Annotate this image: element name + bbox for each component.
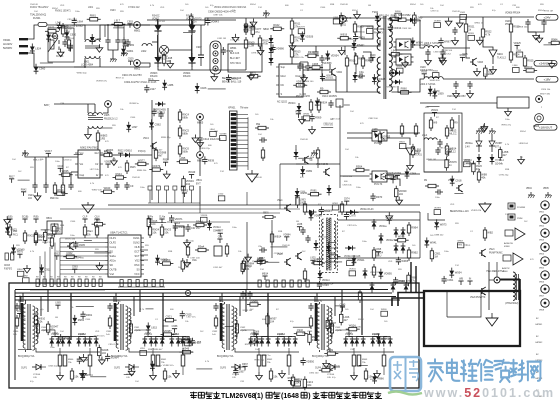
svg-text:LCL-140B4: LCL-140B4 [81,64,94,67]
stub CLB [217,236,222,244]
watermark text [428,359,541,382]
svg-text:C943: C943 [335,327,341,329]
svg-text:R9B: R9B [278,231,283,233]
svg-text:10k: 10k [87,235,92,237]
svg-text:C942: C942 [240,327,246,329]
svg-text:L915: L915 [151,325,157,329]
svg-text:104: 104 [258,134,262,136]
svg-text:CATIN2: CATIN2 [535,341,543,344]
svg-text:+18VOUT: +18VOUT [539,126,553,130]
svg-text:4k7: 4k7 [158,154,163,158]
svg-text:VB05: VB05 [539,268,545,270]
svg-text:L993: L993 [333,17,339,19]
wire to right section [247,17,292,19]
transformer T804 primary bar [315,303,318,341]
choke L901 [80,25,100,67]
svg-text:R943: R943 [433,70,439,72]
svg-text:R9G4: R9G4 [196,219,203,223]
svg-text:W977: W977 [138,158,145,162]
svg-text:10k: 10k [307,383,312,387]
svg-text:C987 10k: C987 10k [213,14,223,16]
svg-text:R9: R9 [424,180,428,182]
svg-text:R942: R942 [399,279,406,283]
ground blk a [150,372,157,380]
svg-text:100n: 100n [116,301,122,303]
svg-text:B7: B7 [436,117,439,119]
svg-text:R9B: R9B [330,4,335,6]
svg-text:R959 47u: R959 47u [294,57,304,59]
extra parts low-right [347,258,354,265]
junction dots [107,24,109,26]
bus line 1 [15,289,388,291]
diode pair D831c [76,332,87,347]
svg-text:XS901: XS901 [3,39,11,42]
svg-text:V9u8 PUMP7K: V9u8 PUMP7K [470,297,486,299]
svg-text:VD988 330: VD988 330 [386,87,398,89]
cap C946 [525,19,530,27]
wire v200b [199,186,201,204]
svg-text:VD988: VD988 [220,133,227,135]
cap C823b [235,320,238,337]
svg-text:R9G4: R9G4 [358,319,364,321]
svg-text:UBA TL4C7C1: UBA TL4C7C1 [110,231,128,235]
wire bridge top [141,24,205,26]
svg-text:L927: L927 [150,87,156,91]
parts mid [259,247,267,252]
svg-text:C9u: C9u [359,70,364,74]
transformer T801 [18,302,35,358]
cap C912b [357,70,365,79]
mosfet V904 [150,142,157,150]
svg-text:1k5: 1k5 [210,124,214,126]
cap CQ2 [305,235,310,243]
ground pfc top [82,202,94,213]
box out4 [424,115,459,172]
svg-text:Y4: Y4 [300,10,303,12]
bottom row parts [36,279,39,287]
svg-text:470: 470 [214,163,218,165]
svg-text:R981: R981 [311,189,318,193]
svg-text:VD940: VD940 [17,248,25,252]
svg-text:R9: R9 [43,277,46,279]
svg-text:104: 104 [12,159,16,161]
svg-text:4.7k: 4.7k [140,309,145,311]
svg-text:100n: 100n [356,187,362,189]
cap C824 [308,303,313,311]
svg-text:R9B: R9B [60,225,65,227]
svg-text:10k: 10k [38,320,43,324]
svg-text:PJ4: PJ4 [260,269,265,271]
resistor R850c [269,368,278,382]
chassis zb [489,128,496,134]
svg-text:R(B): R(B) [34,216,39,219]
chassis mid [311,150,318,156]
svg-text:49/68: 49/68 [504,246,510,248]
svg-text:VD977: VD977 [298,27,305,29]
svg-text:104: 104 [440,5,444,7]
svg-text:W999 330: W999 330 [430,80,441,82]
svg-text:L972 10k: L972 10k [90,169,100,171]
svg-text:BAT(: BAT( [44,104,50,107]
svg-text:VD984: VD984 [394,172,402,175]
box WB02 [361,26,386,39]
svg-text:470: 470 [300,177,304,179]
wire N902 [409,155,411,162]
svg-text:CLP: CLP [83,216,88,219]
svg-text:3(24)4b: 3(24)4b [495,163,504,165]
svg-text:47p: 47p [40,309,44,311]
svg-text:C943 1n: C943 1n [64,160,73,162]
svg-text:VD917: VD917 [45,150,53,153]
svg-text:VD921: VD921 [326,75,334,79]
svg-text:R994 22p: R994 22p [355,31,365,33]
svg-text:PJ4: PJ4 [455,265,460,267]
parts under V906 [425,184,439,187]
resistor R851c [364,368,373,382]
test point MB01 [134,22,141,33]
extra parts low-left [17,251,24,258]
svg-text:BLU: BLU [376,254,381,258]
svg-text:OLP2: OLP2 [114,368,121,370]
svg-text:C931: C931 [106,331,112,333]
svg-text:VD968 1n: VD968 1n [129,103,140,105]
svg-text:50/60Hz: 50/60Hz [3,47,13,50]
svg-text:VD943: VD943 [445,149,453,152]
test point MB05 [197,114,204,125]
svg-text:75k: 75k [161,362,165,364]
svg-text:C946: C946 [320,7,326,9]
svg-text:1k5: 1k5 [412,245,416,247]
wire rail mid [104,25,106,37]
svg-text:2k2: 2k2 [302,251,306,253]
diode DQ1 [306,210,317,215]
svg-text:27k: 27k [294,39,299,43]
svg-text:4k7: 4k7 [382,137,387,141]
svg-text:C970 22p: C970 22p [499,175,509,177]
svg-text:MLCC: MLCC [449,132,456,136]
junction bead [494,277,500,283]
svg-text:WB: WB [120,11,124,13]
svg-text:15k: 15k [273,375,278,379]
svg-text:100n: 100n [55,161,61,163]
svg-text:W996 4k7: W996 4k7 [153,349,164,351]
svg-text:10k: 10k [238,251,242,253]
svg-text:1k5: 1k5 [345,309,349,311]
box XB01 [46,217,62,234]
svg-text:L968 104: L968 104 [65,38,75,40]
svg-text:2k2: 2k2 [200,331,204,333]
svg-text:C920 10k: C920 10k [541,89,551,91]
small boxes row [148,186,152,190]
wire bridge vert [157,20,159,25]
svg-text:NTC 5D-9: NTC 5D-9 [230,62,241,65]
svg-text:P(C): P(C) [13,234,18,236]
resistor R848b [382,355,386,366]
svg-text:C950: C950 [258,340,265,344]
wire T901 [94,104,96,113]
resistor RS4 [407,222,418,236]
resistor R845b [88,355,92,366]
diode pair D832b [153,336,164,347]
resistor R863L [214,315,217,329]
svg-text:NC: NC [281,84,285,87]
svg-text:): ) [308,393,310,400]
svg-text:V902: V902 [336,71,342,74]
svg-text:1k5: 1k5 [255,114,259,116]
svg-text:W935: W935 [62,169,69,173]
svg-text:R9G4: R9G4 [520,131,526,133]
resistor RS1 [270,231,282,245]
transformer T901 [88,113,118,129]
svg-text:L989: L989 [95,37,101,41]
svg-text:WB: WB [30,167,34,169]
svg-text:1N4148: 1N4148 [340,4,348,6]
svg-text:W970 330: W970 330 [65,239,76,241]
svg-text:R913: R913 [526,65,533,69]
extra parts bottom1 [76,305,94,307]
svg-text:W935: W935 [232,76,239,80]
ground CY [110,50,117,62]
diode pair D834a [343,332,354,347]
diode VD903 [154,53,161,67]
svg-text:R961: R961 [161,359,167,361]
ground z [299,116,306,124]
svg-text:C911: C911 [45,267,52,271]
svg-text:OUTB: OUTB [110,269,117,272]
svg-text:SB03 D5B2: SB03 D5B2 [398,14,411,17]
caption title [190,392,382,401]
svg-text:WB14: WB14 [274,235,282,239]
svg-text:W960 22p: W960 22p [77,73,88,75]
optocoupler PC903 [370,130,390,145]
svg-text:SB: SB [55,317,58,319]
extra parts bottom3 [293,326,311,328]
wire route e [279,164,281,209]
svg-text:OLB: OLB [134,246,139,249]
svg-text:C932: C932 [297,328,304,332]
svg-text:C978 2k2: C978 2k2 [274,253,284,255]
svg-text:C970: C970 [433,89,440,93]
svg-text:1N4148: 1N4148 [300,139,308,141]
svg-text:VD957 1n: VD957 1n [261,355,272,357]
transformer T803 [217,302,234,358]
svg-text:104: 104 [370,309,374,311]
varistor RV901 box [48,28,74,62]
svg-text:VD935 1M: VD935 1M [471,210,482,212]
wire mos clutter [322,64,336,80]
svg-text:W943: W943 [104,186,111,190]
svg-text:330: 330 [57,230,62,234]
ground N902 [407,162,414,170]
svg-text:L986: L986 [168,83,174,87]
svg-text:L903 4.7uH/4A: L903 4.7uH/4A [424,42,440,45]
svg-text:C946: C946 [130,117,136,119]
svg-text:R944: R944 [116,172,123,176]
svg-text:RS4JC: RS4JC [152,14,160,17]
svg-text:Vst: Vst [80,163,84,166]
svg-text:C4L: C4L [232,377,237,379]
svg-text:L998 104: L998 104 [519,143,529,145]
svg-text:C995: C995 [375,248,381,251]
resistor R913 [290,46,301,60]
resistor R934 [125,160,128,174]
svg-text:100n: 100n [140,187,146,189]
svg-text:B7: B7 [276,309,279,311]
svg-text:680: 680 [208,145,212,147]
svg-text:L931 22p: L931 22p [185,241,195,243]
svg-text:VB03: VB03 [539,240,545,242]
diode pair D833a [248,332,259,347]
svg-text:47u: 47u [476,167,481,171]
svg-text:VD982 47u: VD982 47u [163,365,175,367]
resistor R943 [353,164,367,171]
cap C907 [196,46,204,66]
svg-text:R9: R9 [85,277,88,279]
svg-text:W940 1M: W940 1M [426,159,436,161]
diode SB02c [269,55,274,66]
svg-text:C976: C976 [250,71,257,75]
chassis pair a [528,192,535,198]
wire sec [36,348,100,352]
svg-text:VB05: VB05 [543,188,549,190]
wire v296 [295,195,297,204]
wire caps join [528,27,544,32]
wire vcc right [428,213,445,220]
svg-text:L939: L939 [347,258,353,260]
resistor R947 [445,125,457,139]
svg-text:470: 470 [120,4,124,6]
svg-text:C939 4k7: C939 4k7 [153,149,163,151]
svg-text:104: 104 [102,351,107,355]
svg-text:VD986 100: VD986 100 [302,81,314,83]
resistor RQ1 [303,201,306,215]
stub W2 [467,278,472,286]
wire route a [108,204,420,206]
svg-text:L9u4: L9u4 [422,135,428,137]
svg-text:W973: W973 [440,222,447,226]
svg-text:L924: L924 [35,47,41,51]
transformer T802 primary bar [114,303,117,341]
ground C913 [425,57,432,65]
svg-text:R9B8: R9B8 [358,57,365,61]
svg-text:PC9-Tb: PC9-Tb [374,142,383,145]
wire sec [330,348,394,352]
svg-text:R967: R967 [242,363,248,366]
zener VD913 [327,185,332,196]
svg-text:VC9B7: VC9B7 [495,143,503,145]
diode VD910 [122,149,133,158]
svg-text:15k: 15k [74,375,79,379]
IC N903 PWM [276,64,306,97]
svg-text:R963: R963 [362,359,368,361]
varistor RV901 [48,35,58,52]
svg-text:POWER: POWER [517,207,526,209]
svg-text:W927 330: W927 330 [540,94,551,96]
wire L904 in [398,79,424,92]
wire 24V rail [420,16,534,18]
svg-text:C907: C907 [196,46,202,49]
svg-text:Mod: Mod [281,75,286,78]
svg-text:4.7k: 4.7k [505,144,510,146]
svg-text:100n: 100n [444,251,450,253]
svg-text:10k: 10k [270,119,274,121]
svg-text:i: i [541,105,542,109]
wire T804 pri [314,297,316,303]
wire gnd row [34,190,36,193]
svg-text:47u: 47u [246,265,251,269]
svg-text:www.520101.com: www.520101.com [423,386,555,400]
resistor R936 [178,109,189,123]
resistor pair R841 [58,355,62,366]
svg-text:C970 47u: C970 47u [347,225,357,227]
svg-text:S0: S0 [136,269,140,272]
svg-text:W946: W946 [303,114,309,116]
svg-text:W999: W999 [178,225,185,229]
zener VD918 [294,149,299,160]
diode VD905 [352,40,365,51]
diode pair D831d [87,336,98,347]
svg-text:VB06: VB06 [539,282,545,284]
bus drops block4 [341,290,343,313]
thick box hv [424,291,520,346]
thick bus right 1 [392,298,424,306]
svg-text:L968: L968 [372,128,378,131]
svg-text:1M: 1M [185,265,189,269]
svg-text:47p/3k: 47p/3k [277,334,284,336]
svg-text:104: 104 [60,331,64,333]
chassis left [22,150,29,156]
wire T802 pri [113,297,115,303]
svg-text:(JTBL15042): (JTBL15042) [505,303,519,305]
test point MB07 [533,114,543,128]
diode VD904 [188,53,195,67]
svg-text:4.7k: 4.7k [205,361,210,363]
svg-text:C982 100: C982 100 [368,118,378,120]
diode DS2 [379,233,384,244]
cap C913 [425,49,430,57]
svg-text:R942: R942 [273,23,280,27]
bottom row wire [30,289,105,291]
svg-text:VD949: VD949 [188,171,196,174]
svg-text:SD: SD [110,264,114,267]
thick stub top [500,279,520,281]
svg-text:W969: W969 [226,49,233,53]
svg-text:R9: R9 [36,277,39,279]
resistor R846b [181,355,185,366]
svg-text:4.7k: 4.7k [90,183,95,185]
svg-text:1k5: 1k5 [384,321,388,323]
svg-text:1k5: 1k5 [205,7,209,9]
svg-text:R9: R9 [78,277,81,279]
parts right of hdr [255,126,269,129]
svg-text:R990 22p: R990 22p [161,137,171,139]
svg-text:680: 680 [516,7,520,9]
cap C821 [14,303,19,311]
svg-text:MB05: MB05 [197,122,204,125]
svg-text:L932: L932 [54,252,60,255]
wire dc right [419,212,421,258]
svg-text:10k: 10k [355,157,359,159]
svg-text:VD934: VD934 [111,355,119,359]
bus drops block1 [47,290,49,313]
wire drain [303,64,330,70]
svg-text:C9F: C9F [350,349,355,351]
diode pair D834c [370,332,381,347]
svg-text:TM-wire: TM-wire [240,107,249,110]
svg-text:C972 1n: C972 1n [431,11,440,13]
resistor RC6 [225,243,228,257]
svg-text:W954: W954 [455,271,462,275]
